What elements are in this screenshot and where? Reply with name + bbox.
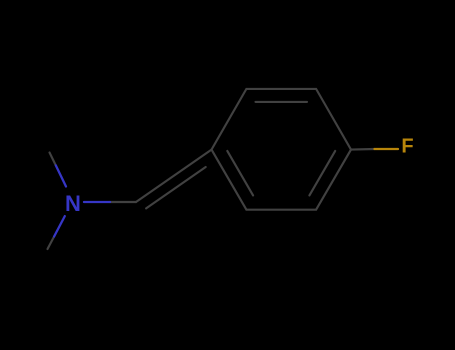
svg-text:N: N xyxy=(65,191,81,216)
svg-text:F: F xyxy=(401,136,413,158)
